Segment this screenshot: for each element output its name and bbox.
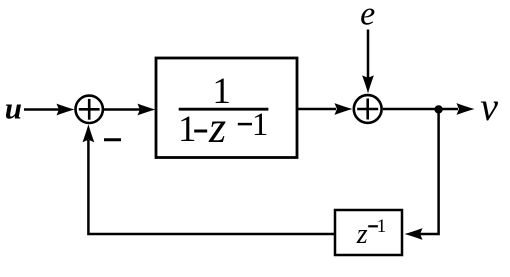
node dot (branch point)	[434, 105, 442, 113]
svg-text:1: 1	[377, 216, 387, 237]
wire e down into S2	[367, 30, 370, 79]
wire S2 to output v	[383, 108, 458, 111]
summing junction S2	[354, 95, 382, 123]
minus sign at S1 feedback input	[104, 138, 121, 141]
wire S1 to block G	[104, 108, 140, 111]
svg-text:e: e	[360, 0, 375, 33]
wire branch point down to z^-1 block	[420, 109, 439, 234]
block G: 1/(1-z^-1)	[156, 58, 297, 158]
svg-text:1: 1	[252, 107, 269, 143]
svg-text:z: z	[208, 103, 226, 152]
wire z^-1 block back to S1	[88, 140, 334, 234]
svg-text:v: v	[480, 84, 498, 129]
svg-text:u: u	[5, 91, 22, 126]
value 1/(1-z^-1): fraction bar	[179, 108, 269, 111]
wire u to summer S1	[24, 108, 60, 111]
wire block G to summer S2	[298, 108, 336, 111]
block z^-1	[335, 210, 402, 255]
svg-text:z: z	[356, 219, 368, 250]
summing junction S1	[76, 96, 103, 123]
svg-text:1: 1	[178, 109, 197, 150]
